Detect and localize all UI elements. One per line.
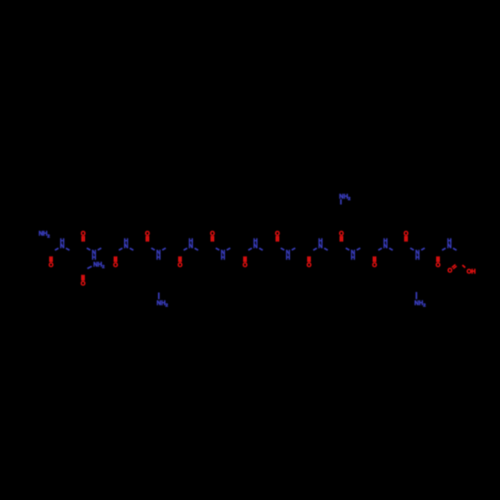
backbone C=O 13 [436, 256, 441, 268]
svg-text:H: H [471, 268, 476, 275]
svg-text:O: O [113, 262, 118, 269]
backbone amide N-H 13 [442, 238, 456, 250]
svg-text:H: H [447, 238, 452, 245]
svg-text:H: H [156, 255, 161, 262]
svg-text:H: H [124, 238, 129, 245]
svg-text:H: H [286, 255, 291, 262]
N-terminal NH2 [39, 231, 51, 239]
svg-text:O: O [307, 262, 312, 269]
svg-text:O: O [404, 230, 409, 237]
svg-text:H: H [351, 255, 356, 262]
Lys side-chain NH2 (bottom right) [414, 300, 426, 308]
svg-text:O: O [210, 230, 215, 237]
svg-text:H: H [60, 238, 65, 245]
backbone C=O 9 [307, 256, 312, 268]
svg-text:H: H [318, 238, 323, 245]
backbone C=O 4 [145, 230, 150, 241]
Lys side-chain bond (top) [340, 199, 342, 204]
svg-text:O: O [372, 262, 377, 269]
backbone amide N-H 12 [410, 248, 424, 262]
svg-text:2: 2 [165, 303, 168, 308]
Lys side-chain bond [158, 293, 160, 300]
svg-text:H: H [383, 238, 388, 245]
svg-text:O: O [81, 230, 86, 237]
backbone C=O 5 [178, 256, 183, 268]
backbone C=O 3 [113, 256, 118, 268]
backbone C=O 2 [81, 230, 86, 241]
backbone C=O 12 [404, 230, 409, 241]
svg-text:O: O [436, 262, 441, 269]
svg-text:O: O [145, 230, 150, 237]
svg-text:2: 2 [102, 264, 105, 269]
backbone C=O 1 [49, 256, 54, 268]
svg-text:H: H [189, 238, 194, 245]
backbone amide N-H 7 [248, 238, 262, 250]
backbone amide N-H 6 [216, 248, 230, 262]
backbone amide N-H 2 [87, 248, 101, 262]
svg-text:H: H [221, 255, 226, 262]
backbone C=O 10 [339, 230, 344, 241]
svg-text:O: O [81, 280, 86, 287]
backbone C=O 8 [275, 230, 280, 241]
Lys side-chain bond 2 [415, 292, 417, 299]
C-terminal O-H [462, 265, 476, 275]
svg-text:O: O [275, 230, 280, 237]
backbone C=O 6 [210, 230, 215, 241]
svg-text:O: O [339, 230, 344, 237]
svg-text:2: 2 [47, 233, 50, 238]
backbone amide N-H 5 [184, 238, 198, 250]
C-terminal C=O [447, 265, 456, 275]
svg-text:O: O [447, 268, 452, 275]
backbone C=O 11 [372, 256, 377, 268]
Lys side-chain NH2 (top) [339, 193, 351, 201]
svg-text:O: O [243, 262, 248, 269]
backbone amide N-H 9 [313, 238, 327, 250]
backbone amide N-H 3 [119, 238, 133, 250]
backbone amide N-H 1 [55, 238, 69, 250]
svg-text:2: 2 [423, 303, 426, 308]
backbone amide N-H 4 [151, 248, 165, 262]
svg-text:H: H [253, 238, 258, 245]
svg-text:H: H [415, 255, 420, 262]
Lys side-chain NH2 (bottom left) [157, 300, 169, 308]
side-chain amide NH2 (Asn) [87, 262, 105, 270]
svg-text:O: O [49, 262, 54, 269]
backbone amide N-H 11 [378, 238, 392, 250]
backbone amide N-H 8 [281, 248, 295, 262]
side-chain amide C=O (Asn) [81, 275, 86, 288]
svg-text:2: 2 [348, 196, 351, 201]
backbone C=O 7 [243, 256, 248, 268]
svg-text:H: H [92, 255, 97, 262]
svg-text:O: O [178, 262, 183, 269]
backbone amide N-H 10 [346, 248, 360, 262]
